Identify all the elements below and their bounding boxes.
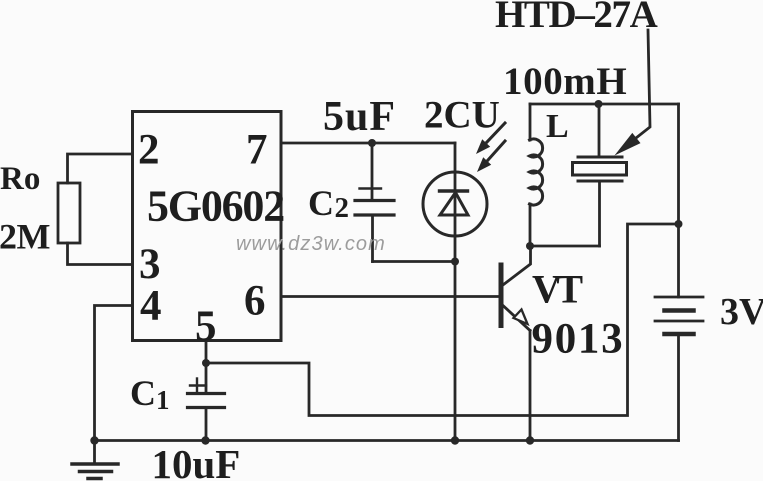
svg-text:9013: 9013	[532, 316, 625, 363]
svg-text:5: 5	[195, 303, 217, 350]
wire C2 bottom to photodiode bottom	[373, 260, 456, 263]
transistor VT 9013	[501, 247, 531, 441]
svg-text:2: 2	[335, 192, 350, 224]
junction C2 top on pin7 wire	[368, 139, 376, 147]
light arrow 2	[477, 141, 505, 172]
wire pin2 to resistor top	[68, 154, 133, 183]
svg-text:2M: 2M	[0, 217, 50, 257]
svg-text:2: 2	[138, 127, 160, 174]
svg-text:C: C	[130, 373, 156, 413]
svg-text:C: C	[308, 183, 334, 223]
svg-text:Ro: Ro	[0, 161, 40, 197]
svg-text:5G0602: 5G0602	[147, 182, 284, 231]
junction emitter on bottom rail	[526, 436, 534, 444]
wire piezo bottom to inductor bottom	[530, 245, 600, 248]
piezo sounder HTD-27A	[573, 104, 627, 246]
junction piezo top on top rail	[595, 100, 603, 108]
capacitor C1	[188, 363, 225, 441]
svg-text:6: 6	[244, 278, 266, 325]
junction battery positive tap	[675, 220, 683, 228]
svg-text:2CU: 2CU	[424, 94, 500, 137]
wire bottom rail	[95, 439, 679, 442]
svg-text:3: 3	[139, 241, 161, 288]
battery B1 3V	[655, 104, 703, 441]
capacitor C2	[355, 143, 394, 262]
ground	[72, 441, 118, 479]
junction C2 bottom / photodiode cathode	[451, 258, 459, 266]
wire pin4 to ground rail	[95, 306, 133, 441]
svg-text:4: 4	[140, 283, 162, 330]
junction ground on bottom rail	[90, 436, 98, 444]
wire resistor bottom to pin3	[68, 243, 133, 265]
svg-text:100mH: 100mH	[503, 60, 627, 103]
wire pin6 to transistor base	[281, 295, 499, 298]
svg-text:L: L	[546, 108, 569, 145]
junction photodiode branch on bottom rail	[451, 436, 459, 444]
junction C1 bottom on bottom rail	[201, 436, 209, 444]
svg-text:www.dz3w.com: www.dz3w.com	[236, 233, 386, 255]
leader arrow HTD-27A	[615, 30, 651, 156]
svg-text:3V: 3V	[720, 291, 763, 333]
photodiode 2CU	[423, 143, 487, 441]
IC U1 5G0602 box	[133, 112, 282, 341]
light arrow 1	[476, 123, 505, 154]
wire top rail (L / piezo / battery)	[530, 103, 679, 106]
svg-text:7: 7	[246, 127, 268, 174]
junction inductor bottom / collector	[526, 242, 534, 250]
wire pin5 to battery (stepped)	[206, 224, 679, 416]
svg-text:VT: VT	[532, 267, 583, 312]
svg-text:1: 1	[156, 385, 170, 415]
wire pin5 stub	[205, 341, 208, 364]
wire pin7 to photodiode	[281, 142, 455, 145]
inductor L 100mH	[530, 104, 543, 246]
svg-text:HTD–27A: HTD–27A	[495, 0, 658, 36]
svg-text:10uF: 10uF	[152, 441, 241, 481]
resistor Ro	[58, 183, 80, 243]
svg-text:5uF: 5uF	[323, 94, 396, 140]
junction pin5 / C1 top	[202, 359, 210, 367]
